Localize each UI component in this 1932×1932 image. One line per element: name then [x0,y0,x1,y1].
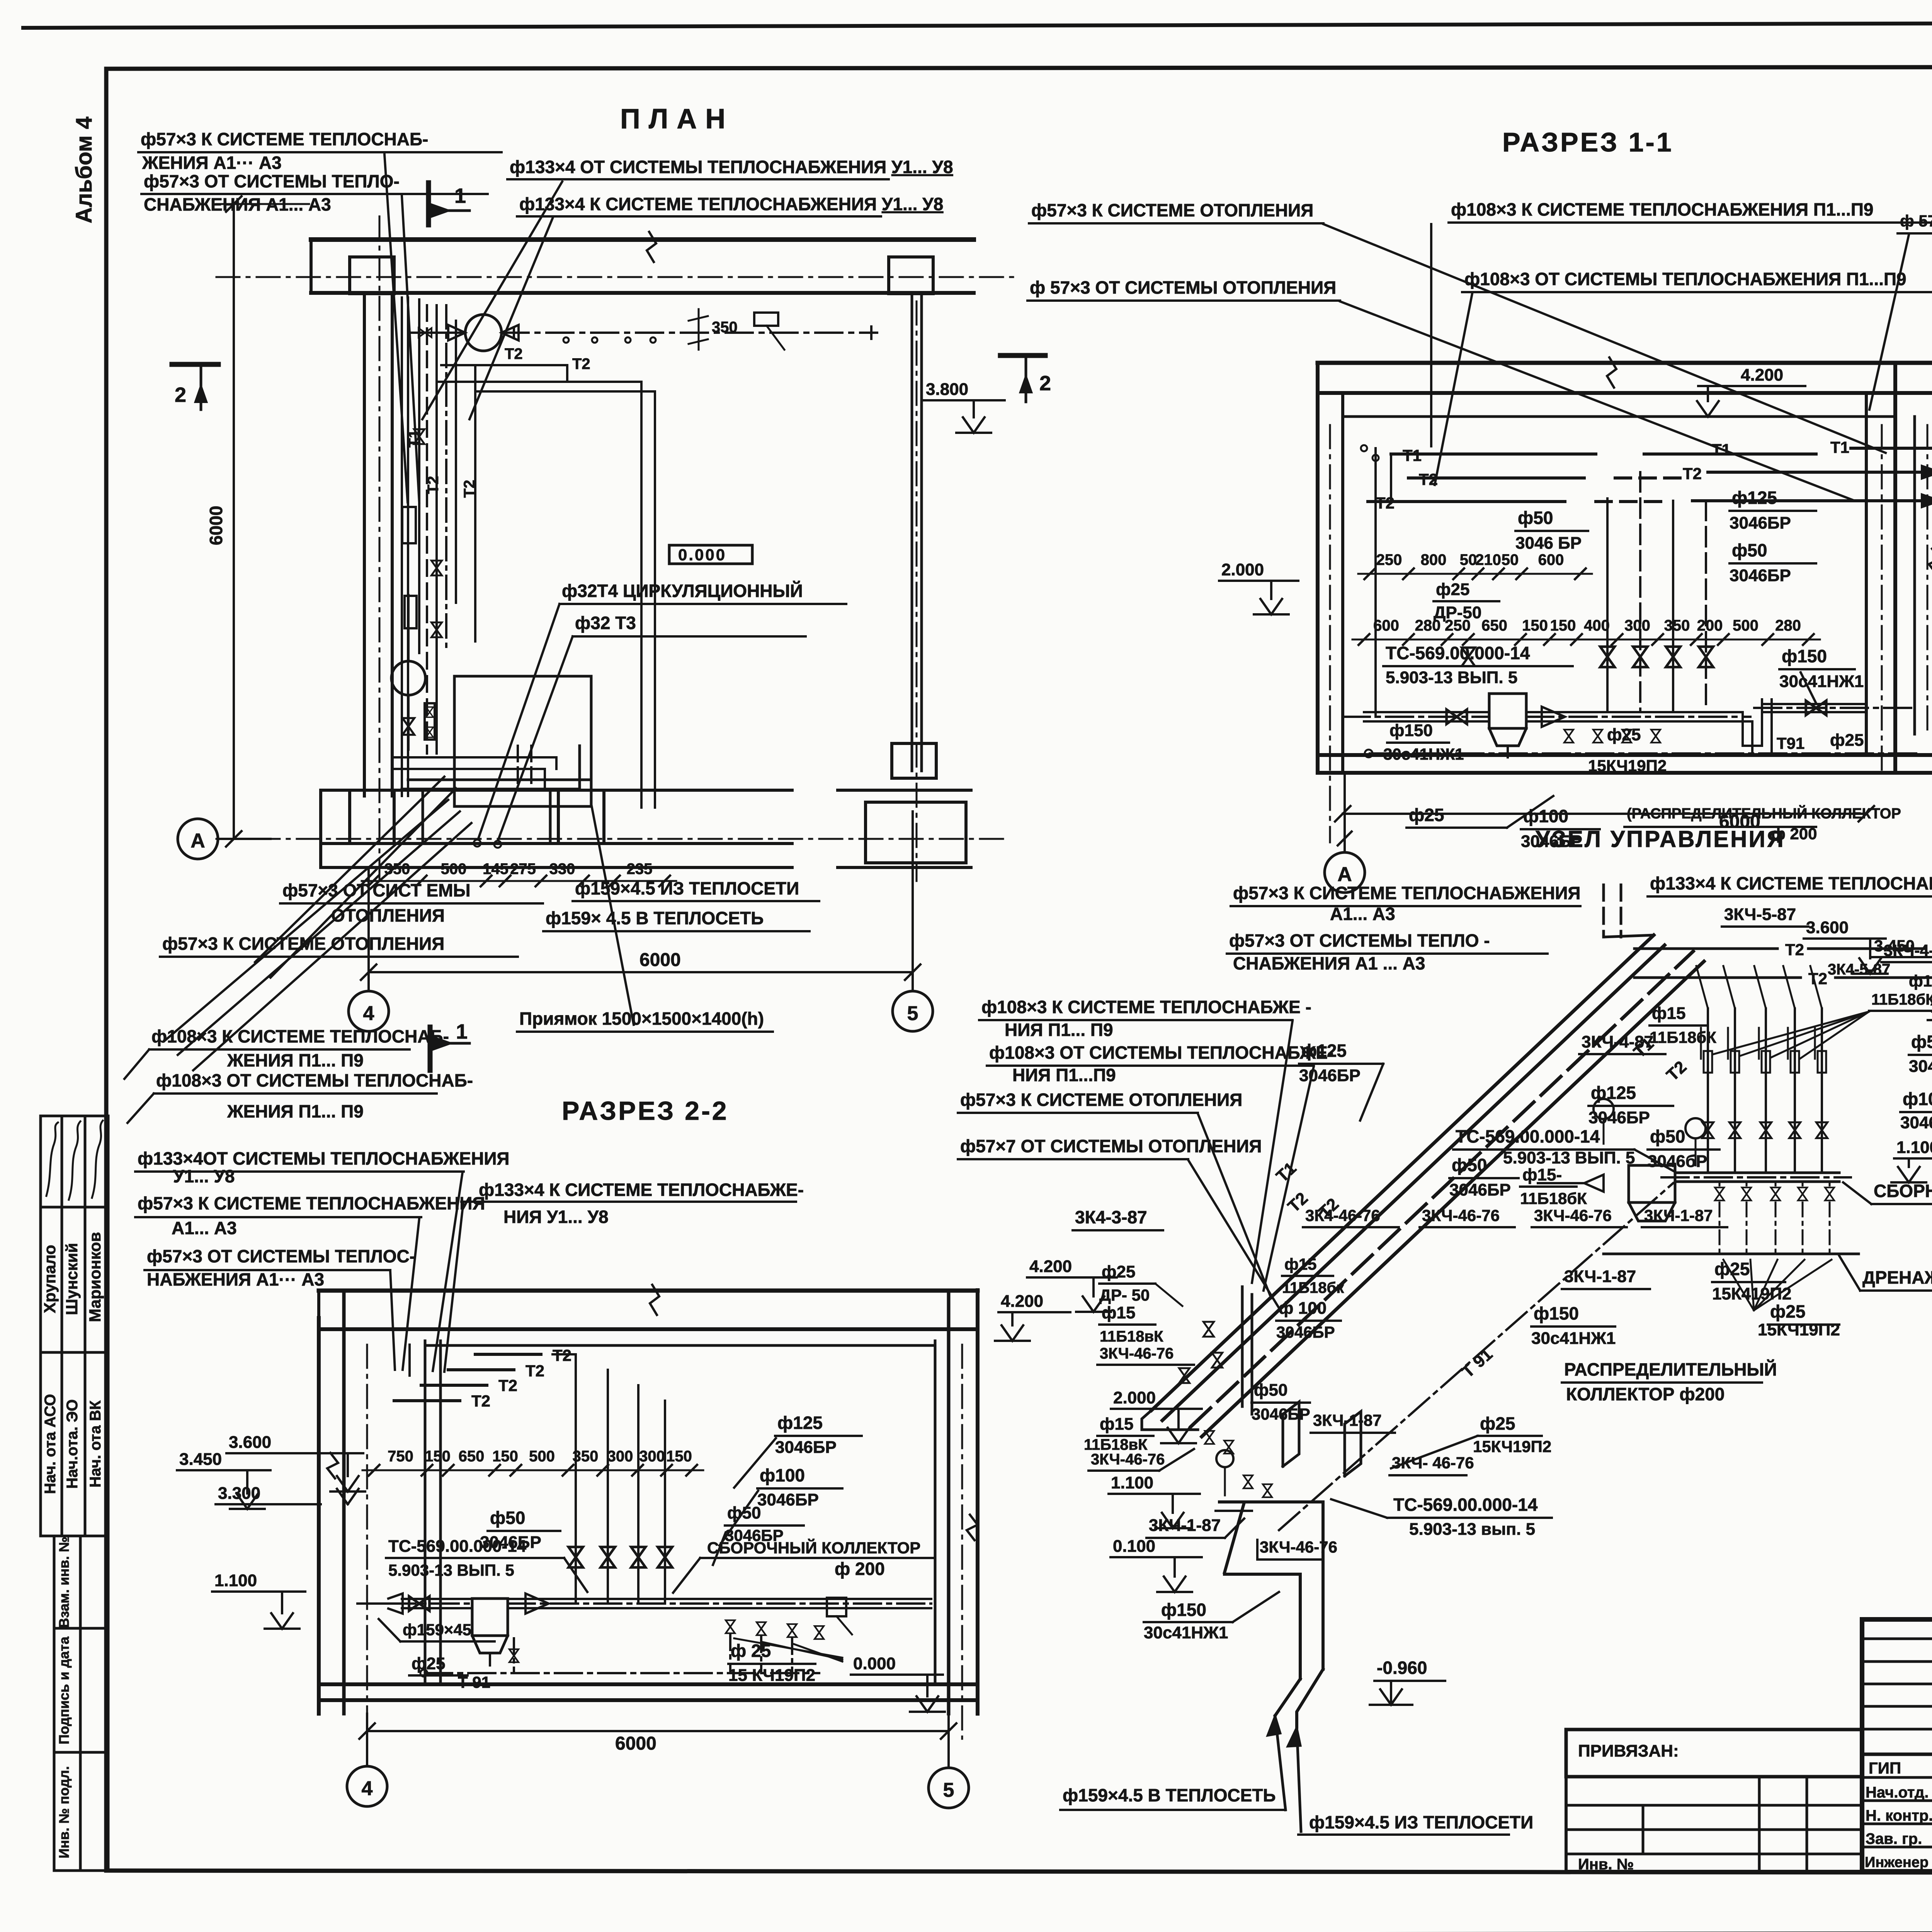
svg-text:2: 2 [175,383,186,406]
svg-text:3КЧ-46-76: 3КЧ-46-76 [1422,1206,1500,1225]
svg-text:3КЧ-1-87: 3КЧ-1-87 [1564,1267,1636,1286]
plan: bottom column 1 [350,790,394,844]
svg-text:15К419П2: 15К419П2 [1712,1284,1791,1303]
valve [418,328,432,337]
svg-text:5.903-13 ВЫП. 5: 5.903-13 ВЫП. 5 [1503,1148,1635,1167]
plan: bottom right wall segment [838,789,971,792]
valve [1789,1122,1801,1138]
gauge [1594,1099,1614,1119]
svg-text:ф57×3 ОТ СИСТЕМЫ ТЕПЛО-: ф57×3 ОТ СИСТЕМЫ ТЕПЛО- [144,171,400,191]
svg-text:1.100: 1.100 [1111,1473,1153,1492]
plan: pump circle top [465,315,502,351]
s11: mud separator [1489,694,1526,728]
svg-text:ТС-569.00.000-14: ТС-569.00.000-14 [1456,1126,1600,1146]
svg-text:5.903-13 вып. 5: 5.903-13 вып. 5 [1409,1520,1535,1539]
axon: fan from f15 label to riser tops [1714,1012,1869,1054]
gauge [1216,1450,1233,1467]
valve [1633,647,1647,667]
heavy row line through whole block [1862,1753,1932,1756]
svg-text:ф 100: ф 100 [1279,1299,1327,1318]
svg-text:5: 5 [907,1002,918,1025]
svg-text:4.200: 4.200 [1001,1292,1043,1311]
svg-text:А1... А3: А1... А3 [172,1218,237,1238]
axon: collector parallelogram plates [1283,1402,1299,1466]
svg-text:1.100: 1.100 [1896,1138,1932,1157]
plan: top wall axis dash-dot [216,276,1020,278]
svg-text:ф15-: ф15- [1522,1165,1562,1184]
plan: small box symbol top [754,313,778,326]
s11: right wall [1865,393,1868,755]
svg-text:ЖЕНИЯ А1··· А3: ЖЕНИЯ А1··· А3 [142,153,282,173]
svg-text:ф108×3 К СИСТЕМЕ ТЕПЛОСНАБ-: ф108×3 К СИСТЕМЕ ТЕПЛОСНАБ- [151,1026,449,1046]
s22: collector to right [508,1598,931,1600]
svg-text:4.200: 4.200 [1741,366,1783,384]
svg-text:150: 150 [425,1448,451,1465]
svg-text:11Б18бК: 11Б18бК [1520,1189,1587,1207]
plan: lower elbow pipes to pit [392,757,556,769]
plan: axis A dash-dot [216,838,1005,840]
svg-text:400: 400 [1584,617,1610,634]
sheet top edge line [23,22,1932,28]
pump inlet cone [448,325,465,340]
svg-text:Т2: Т2 [461,480,478,498]
svg-text:3046БР: 3046БР [1900,1113,1932,1132]
plan: section mark 1 top [426,183,431,225]
svg-text:Т 91: Т 91 [458,1673,490,1691]
left stamp: approval table [39,1116,42,1536]
plan: right wall lines [911,293,913,771]
valve [815,1626,824,1639]
svg-text:ТС-569.00.000-14: ТС-569.00.000-14 [1393,1495,1538,1515]
axon riser [1707,1009,1709,1173]
svg-text:ф50: ф50 [1732,540,1767,560]
svg-text:Т1: Т1 [1403,446,1422,464]
arrowhead [1267,1716,1281,1736]
svg-text:ф133×4 К СИСТЕМЕ ТЕПЛОСНАБЖ: ф133×4 К СИСТЕМЕ ТЕПЛОСНАБЖЕ- [479,1180,804,1200]
s11: left wall [1316,363,1320,771]
svg-text:А: А [190,830,205,852]
svg-text:Т2: Т2 [505,345,523,362]
svg-text:ф57×7 ОТ СИСТЕМЫ ОТОПЛЕНИЯ: ф57×7 ОТ СИСТЕМЫ ОТОПЛЕНИЯ [960,1136,1262,1156]
axon: riser drops to collector [1707,1144,1709,1173]
svg-text:3046БР: 3046БР [775,1438,837,1457]
svg-text:Инженер: Инженер [1865,1854,1929,1871]
plan: column at top-left [350,257,394,294]
svg-text:300: 300 [1624,617,1650,634]
s11: bottom drain pipe [1370,752,1917,755]
axon: T2 step lines right [1634,947,1777,950]
valve [600,1547,615,1568]
svg-text:КОЛЛЕКТОР ф200: КОЛЛЕКТОР ф200 [1566,1384,1725,1404]
pump outlet cone [502,325,519,340]
plan: section mark 1 bottom [428,1027,433,1070]
svg-text:3.300: 3.300 [218,1484,260,1503]
plan: vertical dim 6000 [233,204,235,839]
valve [1564,730,1573,743]
s11: bottom dim 6000 [1343,813,1866,815]
svg-text:3КЧ-46-76: 3КЧ-46-76 [1260,1538,1337,1556]
wall break mark [647,232,656,262]
valve [426,727,434,737]
left stamp: inventory strip [53,1536,56,1871]
plan: 350 dim top [698,309,700,350]
svg-text:4: 4 [362,1777,373,1800]
svg-text:ф50: ф50 [1254,1381,1287,1400]
svg-text:ф57×3 К СИСТЕМЕ ТЕПЛОСНАБЖЕНИ: ф57×3 К СИСТЕМЕ ТЕПЛОСНАБЖЕНИЯ [1233,883,1581,903]
s11: main horizontal pipe [1343,716,1489,718]
svg-text:ф150: ф150 [1534,1303,1579,1323]
svg-text:Шунский: Шунский [63,1243,81,1315]
svg-text:500: 500 [529,1448,555,1465]
valve [787,1624,797,1637]
plan: leaders from upper-left labels [384,155,408,502]
svg-text:ф108×3 ОТ СИСТЕМЫ ТЕПЛОСНАБ: ф108×3 ОТ СИСТЕМЫ ТЕПЛОСНАБ- [156,1070,473,1090]
svg-text:300: 300 [639,1448,665,1465]
s22: T2 riser pipes [408,1345,411,1376]
svg-text:ф100: ф100 [760,1465,805,1485]
svg-text:200: 200 [1697,617,1723,634]
valve [403,718,415,735]
valve [1825,1187,1834,1201]
reducer cone [526,1594,549,1614]
svg-text:30с41НЖ1: 30с41НЖ1 [1531,1329,1616,1348]
axon riser [1794,1009,1796,1173]
svg-text:ф15: ф15 [1652,1004,1685,1023]
svg-text:6000: 6000 [206,506,226,545]
s11: leaders top [1430,224,1432,446]
svg-text:НИЯ П1... П9: НИЯ П1... П9 [1005,1020,1113,1040]
svg-text:Т91: Т91 [1777,734,1804,752]
plan: pump inlet from chase [408,332,465,334]
plan: risers down to pit [640,382,643,808]
s11: axis circle A [1325,852,1365,893]
svg-text:Зав. гр.: Зав. гр. [1866,1830,1922,1847]
svg-text:650: 650 [459,1448,485,1465]
svg-text:ф32 Т3: ф32 Т3 [575,613,636,633]
svg-text:600: 600 [1373,617,1399,634]
svg-text:5.903-13 ВЫП. 5: 5.903-13 ВЫП. 5 [388,1561,514,1579]
plan: chase slim component rects [402,507,416,543]
svg-text:ф108×3 К СИСТЕМЕ ТЕПЛОСНАБЖЕ: ф108×3 К СИСТЕМЕ ТЕПЛОСНАБЖЕНИЯ П1...П9 [1451,199,1874,219]
svg-text:ф150: ф150 [1389,721,1433,740]
svg-text:ф50: ф50 [1911,1032,1932,1052]
valve [1224,1440,1233,1454]
axon riser [1821,1009,1823,1173]
svg-text:6000: 6000 [615,1733,656,1754]
valve [1447,709,1467,724]
svg-text:Нач. ота ВК: Нач. ота ВК [87,1400,104,1488]
axon riser [1765,1009,1767,1173]
valve [426,707,434,717]
svg-text:ф159×45: ф159×45 [403,1621,471,1639]
cone left [1584,1175,1604,1192]
valve on drop [1462,648,1475,666]
svg-text:350: 350 [573,1448,599,1465]
svg-text:3046БР: 3046БР [1276,1323,1335,1341]
title block outer [1862,1619,1932,1871]
svg-text:ЖЕНИЯ П1... П9: ЖЕНИЯ П1... П9 [227,1050,364,1070]
plan: leaders from f32 labels [478,604,560,838]
svg-text:ДР- 50: ДР- 50 [1099,1286,1150,1304]
axon mud separator [1629,1165,1675,1202]
leader [193,823,471,1070]
svg-text:3КЧ-5-87: 3КЧ-5-87 [1724,905,1796,924]
s22: right wall [934,1341,937,1685]
svg-text:3046БР: 3046БР [1299,1066,1361,1085]
svg-text:2.000: 2.000 [1221,560,1264,579]
svg-text:ф133×4ОТ СИСТЕМЫ ТЕПЛОСНАБЖЕН: ф133×4ОТ СИСТЕМЫ ТЕПЛОСНАБЖЕНИЯ [138,1148,509,1168]
svg-text:Н. контр.: Н. контр. [1866,1807,1932,1824]
svg-text:РАСПРЕДЕЛИТЕЛЬНЫЙ: РАСПРЕДЕЛИТЕЛЬНЫЙ [1564,1359,1777,1379]
valve [1798,1187,1807,1201]
svg-text:Нач. ота АСО: Нач. ота АСО [42,1394,59,1494]
break mark [650,1285,659,1315]
reducer cone [1542,707,1565,727]
valve [1179,1368,1189,1383]
svg-text:ф133×4 К СИСТЕМЕ ТЕПЛОСНАБЖ: ф133×4 К СИСТЕМЕ ТЕПЛОСНАБЖЕНИЯ У1 ... У… [1650,873,1932,893]
svg-text:30с41НЖ1: 30с41НЖ1 [1383,745,1464,763]
svg-text:ф125: ф125 [1301,1041,1347,1061]
valve [726,1620,735,1633]
svg-text:Взам. инв. №: Взам. инв. № [56,1537,72,1628]
svg-text:150: 150 [666,1448,692,1465]
break mark [1607,357,1616,388]
svg-text:800: 800 [1421,551,1447,568]
arrowhead [1287,1727,1301,1747]
axon: raspred collector line [1219,1500,1323,1503]
s22: risers down [575,1354,577,1604]
svg-text:Т1: Т1 [1712,440,1731,459]
s11: floor [1318,753,1932,757]
svg-text:ф108×3 ОТ СИСТЕМЫ ТЕПЛОСНАБЖ: ф108×3 ОТ СИСТЕМЫ ТЕПЛОСНАБЖЕ- [989,1043,1333,1063]
svg-text:ф57×3 К СИСТЕМЕ ОТОПЛЕНИЯ: ф57×3 К СИСТЕМЕ ОТОПЛЕНИЯ [162,934,444,954]
svg-text:Альбом 4: Альбом 4 [71,117,97,223]
svg-text:3К4-5-87: 3К4-5-87 [1828,961,1890,978]
plan: bottom wall band [321,789,792,792]
svg-text:15КЧ19П2: 15КЧ19П2 [1758,1320,1840,1339]
svg-text:ф25: ф25 [412,1654,445,1673]
dimension row [362,1469,703,1471]
s22: main collector pipe [388,1602,472,1605]
plan: top horizontal pipe with axis [502,332,877,334]
svg-text:11Б18бК: 11Б18бК [1650,1028,1716,1046]
svg-text:ф25: ф25 [1714,1259,1750,1279]
svg-text:150: 150 [492,1448,518,1465]
s11: right pipe w valve [1762,703,1866,705]
valve [1263,1484,1272,1497]
signatures (squiggles) [46,1122,58,1196]
valve [1806,701,1827,715]
valve [1730,1122,1741,1138]
plan: bottom column 2 [558,790,604,844]
s11: break marks right wall [1929,549,1932,574]
svg-text:3КЧ-4-87: 3КЧ-4-87 [1582,1032,1653,1051]
svg-text:1: 1 [454,184,466,207]
svg-text:ф50: ф50 [490,1508,525,1528]
svg-text:Т2: Т2 [1683,464,1702,483]
svg-text:Т1: Т1 [1272,1158,1300,1186]
svg-text:330: 330 [549,861,575,878]
svg-text:Инв. № подл.: Инв. № подл. [56,1766,72,1859]
s22: leaders from labels [403,1219,419,1370]
svg-text:ф57×3 К СИСТЕМЕ ОТОПЛЕНИЯ: ф57×3 К СИСТЕМЕ ОТОПЛЕНИЯ [1031,200,1313,220]
valve [1600,647,1614,667]
valve [1699,647,1713,667]
svg-text:Т 91: Т 91 [1458,1345,1496,1381]
svg-text:ф25: ф25 [1607,725,1641,744]
svg-text:3К4-46-76: 3К4-46-76 [1930,1000,1932,1017]
svg-text:15КЧ19П2: 15КЧ19П2 [1588,757,1667,775]
svg-text:-0.960: -0.960 [1377,1658,1427,1678]
svg-text:235: 235 [627,861,653,878]
svg-text:0.000: 0.000 [678,546,726,564]
plan: right column block [892,743,936,778]
svg-text:350: 350 [384,861,410,878]
axon: T91 dash-dot diagonal [1279,1183,1673,1530]
svg-text:350: 350 [1664,617,1690,634]
svg-text:11Б18бК: 11Б18бК [1871,991,1932,1008]
s11: pipe jog to right [1735,712,1762,746]
svg-text:ф 200: ф 200 [835,1559,885,1579]
svg-text:ф57×3 ОТ СИСТ ЕМЫ: ф57×3 ОТ СИСТ ЕМЫ [282,880,471,900]
svg-text:3КЧ-1-87: 3КЧ-1-87 [1149,1516,1221,1535]
svg-text:УЗЕЛ УПРАВЛЕНИЯ: УЗЕЛ УПРАВЛЕНИЯ [1536,826,1785,852]
valve [1715,1187,1724,1201]
svg-text:А1... А3: А1... А3 [1330,904,1395,924]
svg-text:ДРЕНАЖНЫЙ ТРУБОПРОВОД: ДРЕНАЖНЫЙ ТРУБОПРОВОД [1862,1267,1932,1287]
svg-text:Нач.отд.: Нач.отд. [1866,1784,1929,1801]
axon: arrow lines to bottom labels [1275,1716,1286,1810]
s22: left wall [317,1318,321,1714]
svg-text:15 КЧ19П2: 15 КЧ19П2 [728,1666,815,1685]
dimension row [1352,639,1820,641]
plan: 0.000 box [669,545,752,564]
s11: mid risers [1606,498,1609,711]
plan: leaders from f133 labels [469,218,553,419]
valve [1742,1187,1751,1201]
s22: wall axis dashes [366,1345,368,1739]
dimension row [362,880,676,882]
svg-text:50: 50 [1460,551,1477,568]
svg-text:ф 25: ф 25 [731,1641,771,1661]
svg-text:ф25: ф25 [1770,1301,1805,1321]
s22: box symbol [827,1598,846,1616]
svg-text:Т2: Т2 [1419,470,1438,488]
svg-text:3046БР: 3046БР [1730,566,1791,585]
svg-text:2: 2 [1039,372,1051,395]
axon: diagonal labels [1272,1158,1300,1186]
svg-text:30с41НЖ1: 30с41НЖ1 [1779,672,1864,691]
valve [1760,1122,1772,1138]
svg-text:1: 1 [456,1020,468,1043]
svg-text:ф15: ф15 [1284,1255,1316,1273]
svg-text:Т2: Т2 [471,1392,490,1410]
svg-text:300: 300 [607,1448,633,1465]
svg-text:ДР-50: ДР-50 [1434,603,1481,622]
dimension row [1358,573,1592,575]
valve [1243,1475,1253,1488]
s11: ceiling band [1318,361,1932,365]
valve [1203,1322,1214,1337]
axon: riser top symbols [1704,1051,1712,1073]
svg-text:Т2: Т2 [425,476,442,494]
s11: left riser drops [1374,448,1377,717]
valve [1651,730,1660,743]
valve [431,561,442,575]
svg-text:Хрупало: Хрупало [41,1245,59,1313]
svg-text:РАЗРЕЗ 1-1: РАЗРЕЗ 1-1 [1502,127,1673,157]
svg-text:Нач.ота. ЭО: Нач.ота. ЭО [64,1399,81,1489]
svg-text:Подпись и дата: Подпись и дата [56,1636,72,1745]
svg-text:350: 350 [712,319,738,336]
svg-text:ф133×4 ОТ СИСТЕМЫ ТЕПЛОСНАБЖ: ф133×4 ОТ СИСТЕМЫ ТЕПЛОСНАБЖЕНИЯ У1... У… [510,157,953,177]
svg-text:ф100: ф100 [1903,1089,1932,1109]
svg-text:150: 150 [1550,617,1576,634]
svg-text:50: 50 [1502,551,1519,568]
plan: right wall axis dash-dot [916,301,918,881]
svg-text:3КЧ-46-76: 3КЧ-46-76 [1100,1345,1173,1362]
svg-text:3046БР: 3046БР [1909,1057,1932,1076]
drawing frame [106,66,1932,69]
svg-text:СБОРОЧНЫЙ КОЛЛЕКТОР: СБОРОЧНЫЙ КОЛЛЕКТОР [707,1538,920,1557]
plan: section mark 2 left [172,362,218,367]
svg-text:Марионков: Марионков [86,1232,104,1322]
valve [1593,730,1602,743]
svg-text:ф25: ф25 [1436,580,1469,599]
svg-text:3К4-3-87: 3К4-3-87 [1075,1207,1147,1227]
axon: main diagonal pipes T1/T2 [1151,935,1654,1410]
plan: small circles at pit top [474,840,481,847]
svg-text:3046БР: 3046БР [1449,1180,1511,1199]
svg-text:ф15: ф15 [1909,972,1932,990]
svg-text:СБОРНЫЙ КОЛЛЕКТОР: СБОРНЫЙ КОЛЛЕКТОР [1874,1181,1932,1201]
valve [1816,1122,1828,1138]
svg-text:11Б18бк: 11Б18бк [1282,1279,1344,1296]
svg-text:3КЧ-46-76: 3КЧ-46-76 [1091,1451,1165,1468]
s22: leaders to f25 label [734,1638,842,1658]
plan: left wall [363,293,366,796]
svg-text:5.903-13 ВЫП. 5: 5.903-13 ВЫП. 5 [1386,668,1517,687]
svg-text:ОТОПЛЕНИЯ: ОТОПЛЕНИЯ [331,905,445,925]
plan: pit (priyamok) outline [454,676,591,806]
svg-text:150: 150 [1522,617,1548,634]
svg-text:3К4-46-76: 3К4-46-76 [1305,1206,1380,1225]
s22: bottom dim 6000 [367,1730,949,1732]
s22: label leaders [734,1438,776,1488]
valve [658,1547,672,1568]
svg-text:0.000: 0.000 [853,1654,896,1673]
svg-text:3046БР: 3046БР [1252,1405,1310,1423]
svg-text:ЖЕНИЯ П1... П9: ЖЕНИЯ П1... П9 [227,1101,364,1121]
svg-text:А: А [1337,863,1352,886]
s11: wall axis dashes [1329,425,1331,842]
svg-text:ф15: ф15 [1100,1415,1133,1434]
valve [1666,647,1680,667]
plan: pump circle lower [391,661,425,695]
svg-text:Т2: Т2 [498,1376,517,1395]
s11: T1/T2 pipe runs [1391,452,1596,456]
s22: axis circles [347,1766,387,1806]
plan: bottom column 3 [866,802,966,863]
valve [631,1547,645,1568]
leader [178,811,460,1055]
s22: drain line bottom [425,1672,819,1674]
svg-text:280: 280 [1775,617,1801,634]
svg-text:650: 650 [1481,617,1507,634]
svg-text:3КЧ- 46-76: 3КЧ- 46-76 [1392,1454,1474,1472]
svg-text:6000: 6000 [639,950,681,970]
axon: leaders right fan [1723,1260,1754,1310]
